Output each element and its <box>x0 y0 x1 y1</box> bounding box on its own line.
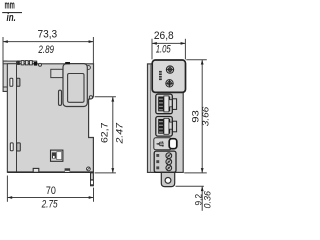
bottom slot middle <box>65 168 71 171</box>
clip pair upper <box>10 78 13 86</box>
svg-text:mm: mm <box>4 0 14 11</box>
svg-text:70: 70 <box>46 185 56 197</box>
top latch section <box>152 60 185 92</box>
dimension 62,7 / 2.47 <box>95 97 126 173</box>
small box left of front plate <box>51 69 63 77</box>
bottom pin <box>91 173 94 186</box>
screw 1 <box>166 66 173 73</box>
svg-text:73,3: 73,3 <box>37 28 57 40</box>
main body <box>7 64 93 172</box>
front plate rounded rect <box>63 64 87 107</box>
dimension 9,2 / 0.36 <box>176 186 214 211</box>
svg-text:2.75: 2.75 <box>41 198 58 210</box>
connector 2 <box>156 117 177 137</box>
svg-text:in.: in. <box>7 12 16 24</box>
black square top <box>34 62 37 66</box>
black tab on plate top <box>65 62 70 64</box>
bottom right circle <box>87 167 91 171</box>
svg-text:26,8: 26,8 <box>154 30 174 42</box>
front view (right): module body <box>148 60 186 187</box>
small circle A <box>39 63 42 66</box>
svg-text:2.89: 2.89 <box>38 44 55 56</box>
back channel strip <box>8 64 16 171</box>
svg-text:2.47: 2.47 <box>114 122 125 144</box>
dimension 70 / 2.75 <box>7 176 93 211</box>
top strip <box>3 61 37 64</box>
two tone box bottom <box>51 150 63 161</box>
svg-text:62,7: 62,7 <box>99 123 110 144</box>
right step circle <box>89 96 92 99</box>
dimension 73,3 / 2.89 <box>3 28 93 64</box>
screw 2 <box>166 80 173 87</box>
terminal block <box>154 151 176 172</box>
legend mm/in <box>2 0 22 24</box>
bottom slot left <box>33 168 39 172</box>
dip marks <box>159 71 162 73</box>
connector 1 <box>156 94 177 114</box>
top right circle B <box>87 66 91 70</box>
clip pair lower <box>10 143 13 151</box>
mini usb port <box>169 139 177 149</box>
dimension 93 / 3.66 <box>184 60 211 173</box>
left lever tab of plate <box>59 90 62 105</box>
side view (left): module body <box>3 61 93 186</box>
usb section <box>154 138 177 150</box>
svg-text:3.66: 3.66 <box>201 106 212 126</box>
dimension 26,8 / 1.05 <box>152 30 185 60</box>
bottom lug <box>161 172 174 186</box>
svg-text:0.36: 0.36 <box>202 190 213 208</box>
bottom thick edge <box>7 171 93 173</box>
svg-text:1.05: 1.05 <box>156 43 171 55</box>
din hook outline <box>3 61 7 91</box>
top teeth <box>17 61 20 65</box>
